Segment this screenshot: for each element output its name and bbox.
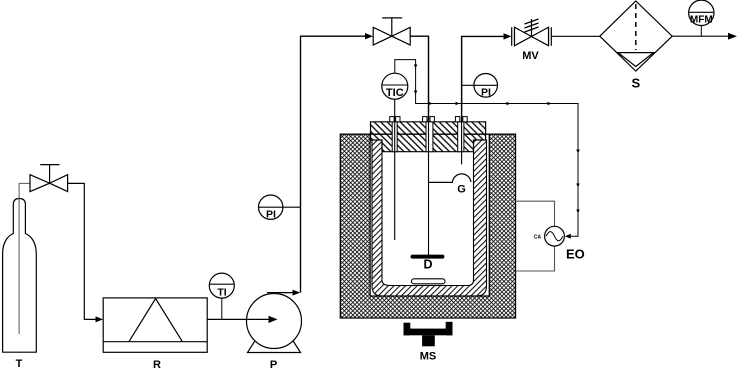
svg-text:TIC: TIC [386,87,404,99]
arrow into EO [565,234,571,239]
signal tick marks [414,65,580,214]
separator S [600,1,672,71]
outlet wire from S [672,35,730,37]
impeller D [413,255,444,259]
svg-text:MV: MV [522,50,539,62]
EO heater wires [516,201,555,271]
svg-text:T: T [16,358,23,370]
valve V1 (cylinder outlet valve) [30,165,68,192]
svg-text:EO: EO [566,247,585,262]
wire pump outlet riser [267,292,295,294]
reactor lid [371,122,486,152]
svg-text:G: G [457,184,466,196]
svg-text:MFM: MFM [690,15,713,26]
svg-text:MS: MS [420,351,437,363]
wire valve V2 to reactor feed [410,36,428,122]
outlet arrow [728,33,737,40]
svg-text:S: S [631,76,640,91]
svg-text:D: D [423,258,432,272]
wire valve V1 to R [68,183,97,319]
reactor jacket (heating mantle) [340,134,515,318]
instrument TIC [382,73,408,99]
valve V2 (feed valve) [373,18,410,45]
svg-text:TI: TI [217,287,226,299]
svg-text:R: R [153,359,161,371]
TIC signal wire [395,60,578,237]
gas sparger G [429,174,471,183]
stirrer shaft [428,36,430,255]
wire R to pump P [207,318,270,320]
wire MV to separator S [551,35,600,37]
arrow into valve V2 [365,33,373,39]
thermowell line [394,99,396,240]
pump P [247,294,302,353]
dip tube wire (cylinder to valve V1) [19,183,30,334]
svg-text:PI: PI [481,86,491,98]
magnetic stirrer MS [404,322,453,347]
instrument PI (reactor) [462,74,498,99]
arrow into MV [504,33,512,39]
instrument TI [209,273,234,319]
stir bar [412,279,446,284]
gas outlet tube in lid [461,36,463,164]
svg-text:PI: PI [266,209,276,221]
reactor gas outlet wire to MV [462,36,505,121]
gas cylinder T [3,199,37,353]
instrument PI (on riser) [259,195,301,221]
reactor vessel pot [372,140,487,296]
power source EO [534,226,565,246]
svg-text:P: P [270,359,277,371]
saturator R [103,298,207,352]
valve MV (back-pressure valve) [512,19,552,46]
arrow into R [96,316,104,322]
lid port slots [392,122,464,152]
instrument MFM [689,0,714,36]
lid bolts [390,117,467,122]
svg-text:CA: CA [534,234,542,240]
